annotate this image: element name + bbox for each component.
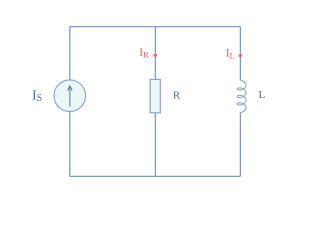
svg-text:L: L [259, 89, 266, 101]
wire middle upper [154, 27, 156, 80]
wire left upper [69, 27, 71, 81]
current arrow IL [238, 55, 242, 59]
wire left lower [69, 111, 71, 176]
svg-text:IR: IR [139, 47, 149, 60]
wire middle lower [154, 113, 156, 177]
current source IS [54, 80, 86, 112]
wire bottom [70, 175, 241, 177]
svg-text:IS: IS [32, 89, 42, 105]
svg-text:IL: IL [226, 48, 235, 61]
wire right upper [239, 27, 241, 81]
wire right lower [239, 112, 241, 176]
svg-text:R: R [173, 89, 181, 101]
current source arrow [68, 86, 73, 107]
wire top [70, 26, 241, 28]
resistor R [150, 79, 160, 112]
inductor L coil [237, 81, 246, 113]
current arrow IR [153, 54, 157, 58]
